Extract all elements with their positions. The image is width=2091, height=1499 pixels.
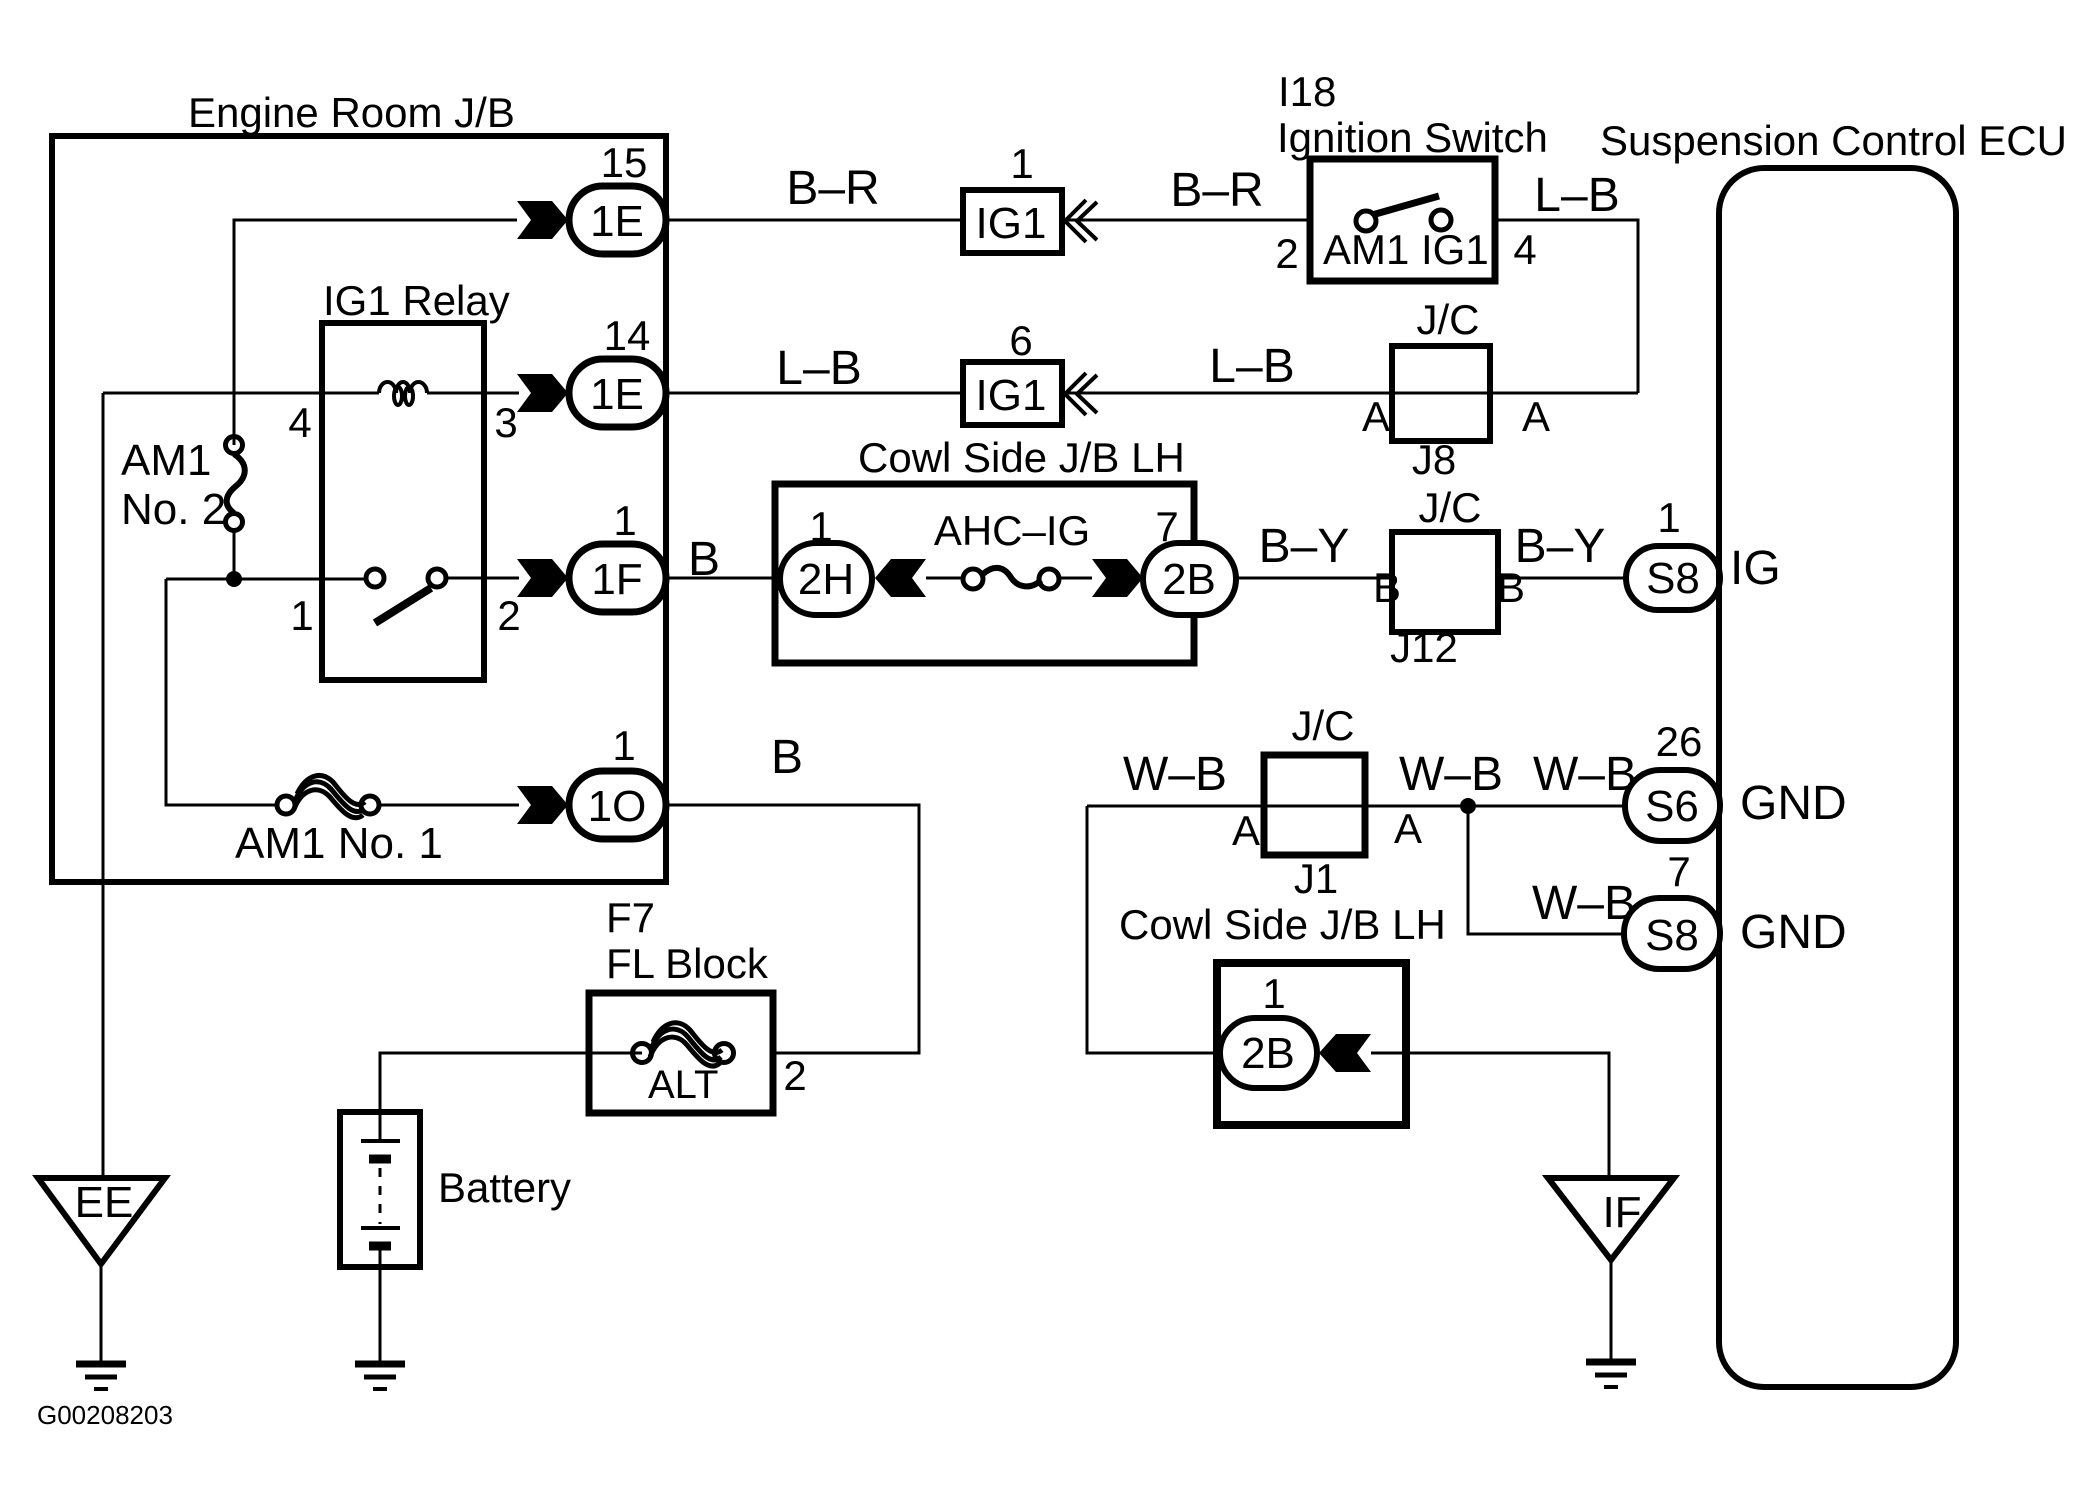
wire junction to relay contact 1 (166, 578, 366, 581)
ground symbol below IF (1586, 1362, 1636, 1387)
svg-text:IG1: IG1 (976, 199, 1047, 248)
svg-text:W–B: W–B (1533, 748, 1637, 801)
wire fuse to right arrow (1059, 577, 1092, 580)
svg-text:S6: S6 (1645, 782, 1699, 831)
svg-text:1: 1 (1262, 970, 1285, 1017)
svg-text:AM1 No. 1: AM1 No. 1 (235, 819, 443, 868)
svg-text:1E: 1E (590, 370, 644, 419)
svg-text:Battery: Battery (438, 1164, 571, 1211)
svg-text:Cowl Side J/B LH: Cowl Side J/B LH (1119, 901, 1446, 948)
svg-text:B: B (771, 731, 803, 784)
svg-text:J/C: J/C (1419, 484, 1482, 531)
junction connector J8 box (1392, 346, 1490, 441)
wire battery to ground (379, 1267, 382, 1364)
svg-text:J12: J12 (1390, 624, 1458, 671)
ground symbol below EE (76, 1364, 126, 1389)
connector arrow into 2B second (left pointing) (1319, 1034, 1371, 1072)
svg-text:J/C: J/C (1417, 296, 1480, 343)
wire junction down to S8 GND row (1468, 806, 1626, 934)
wire IG1 chevron to junction connector J8 (1067, 392, 1638, 395)
wire arrow to fuse AHC-IG (926, 577, 963, 580)
svg-text:ALT: ALT (648, 1063, 718, 1107)
fuse AHC-IG (963, 568, 1059, 589)
svg-text:3: 3 (494, 399, 517, 446)
connector oval 1F (569, 544, 666, 612)
svg-text:No. 2: No. 2 (121, 485, 226, 534)
wire 1E15 to IG1 connector 1 (666, 219, 963, 222)
svg-text:EE: EE (75, 1178, 134, 1227)
connector arrow into 1F (517, 559, 568, 597)
svg-text:GND: GND (1740, 906, 1847, 959)
svg-text:1: 1 (1657, 494, 1680, 541)
ignition switch blade (1372, 196, 1439, 215)
wire W-B row to J1 and S6 (1087, 805, 1625, 808)
svg-text:Cowl Side J/B LH: Cowl Side J/B LH (858, 434, 1185, 481)
connector oval 2H (780, 543, 872, 615)
svg-text:6: 6 (1009, 317, 1032, 364)
svg-text:FL Block: FL Block (606, 940, 769, 987)
connector oval 1E (pin 14) (569, 359, 666, 427)
svg-text:IG: IG (1730, 542, 1781, 595)
ground symbol below battery (355, 1364, 405, 1389)
relay switch blade (375, 588, 431, 623)
svg-text:B–Y: B–Y (1259, 520, 1350, 573)
connector oval S8 (GND) (1624, 898, 1720, 969)
ground triangle IF (1548, 1178, 1674, 1260)
wire coil to connector 1E pin14 (427, 392, 519, 395)
Suspension Control ECU box (1719, 168, 1956, 1387)
svg-text:L–B: L–B (776, 342, 861, 395)
svg-text:26: 26 (1656, 718, 1703, 765)
svg-text:W–B: W–B (1532, 877, 1636, 930)
svg-text:2: 2 (497, 592, 520, 639)
connector arrow into 1E pin14 (517, 374, 568, 412)
svg-text:7: 7 (1667, 848, 1690, 895)
svg-text:14: 14 (604, 312, 651, 359)
svg-text:15: 15 (601, 139, 648, 186)
connector box IG1 (pin 1) (963, 190, 1062, 253)
svg-text:W–B: W–B (1123, 748, 1227, 801)
svg-text:A: A (1362, 393, 1390, 440)
svg-text:GND: GND (1740, 777, 1847, 830)
wire battery to FL block (380, 1053, 642, 1112)
connector chevron at IG1 pin1 (1065, 200, 1097, 242)
svg-text:IG1: IG1 (976, 371, 1047, 420)
svg-text:B–R: B–R (1170, 164, 1263, 217)
wire relay contact 2 to connector 1F (446, 577, 519, 580)
wire from fuse AM1 No.2 down to junction (233, 530, 236, 579)
battery cells (361, 1112, 400, 1267)
svg-text:2B: 2B (1241, 1029, 1295, 1078)
svg-text:A: A (1232, 807, 1260, 854)
svg-text:B: B (688, 533, 720, 586)
relay switch contacts (366, 569, 384, 587)
svg-text:AM1: AM1 (121, 436, 211, 485)
FL block box F7 (589, 993, 773, 1113)
Engine Room J/B box (52, 136, 666, 882)
svg-text:1: 1 (1010, 140, 1033, 187)
svg-text:B–R: B–R (786, 162, 879, 215)
wire 2B arrow to IF riser (1371, 1053, 1609, 1178)
svg-text:J1: J1 (1294, 855, 1338, 902)
svg-text:2H: 2H (798, 555, 854, 604)
wire 1O to FL block riser (666, 805, 919, 1053)
wire EE riser (102, 393, 105, 1178)
wire IG1 chevron to ignition switch pin 2 (1067, 219, 1310, 222)
svg-text:1: 1 (290, 592, 313, 639)
svg-text:B: B (1373, 564, 1401, 611)
svg-text:AHC–IG: AHC–IG (934, 507, 1090, 554)
wire 2B to J12 (1236, 577, 1392, 580)
ignition switch contacts (1356, 211, 1376, 231)
Cowl Side J/B LH box (second) (1217, 963, 1406, 1125)
connector arrow out of 2H (left pointing) (875, 559, 926, 597)
Cowl Side J/B LH box (775, 484, 1194, 663)
fuse AM1 No.1 (277, 776, 379, 818)
junction connector J12 box (1392, 532, 1498, 632)
connector arrow into 1O (517, 786, 568, 824)
svg-text:F7: F7 (606, 894, 655, 941)
wire fuse AM1 No.1 to connector 1O (379, 804, 519, 807)
wire 1F to cowl side J/B (666, 577, 780, 580)
connector oval 1E (pin 15) (569, 186, 666, 254)
svg-text:Ignition Switch: Ignition Switch (1277, 114, 1548, 161)
wire from connector 1E pin15 left to fuse AM1 No.2 (234, 220, 517, 445)
svg-text:IF: IF (1602, 1188, 1641, 1237)
connector arrow into 1E pin15 (517, 201, 568, 239)
wire EE to ground (100, 1264, 103, 1364)
svg-text:1: 1 (612, 722, 635, 769)
svg-text:J8: J8 (1412, 436, 1456, 483)
IG1 Relay box (322, 323, 484, 680)
svg-text:4: 4 (1513, 226, 1536, 273)
wire J12 to S8 (1498, 577, 1626, 580)
connector oval 2B (second) (1220, 1018, 1317, 1088)
svg-text:1: 1 (613, 497, 636, 544)
wire W-B down to cowl side 2B (1087, 806, 1220, 1053)
junction connector J1 box (1264, 755, 1365, 855)
svg-text:A: A (1394, 805, 1422, 852)
junction node dot on W-B row (1460, 798, 1476, 814)
connector oval S8 (IG) (1626, 546, 1720, 610)
svg-text:IG1: IG1 (1421, 226, 1489, 273)
svg-text:4: 4 (288, 399, 311, 446)
battery box (340, 1112, 420, 1267)
wire ignition switch pin4 to J8 (1495, 220, 1638, 393)
wire coil row from EE riser to relay coil (103, 392, 379, 395)
svg-text:W–B: W–B (1399, 748, 1503, 801)
connector chevron at IG1 pin6 (1065, 373, 1097, 415)
svg-text:1O: 1O (588, 782, 647, 831)
svg-text:A: A (1522, 393, 1550, 440)
connector arrow into 2B (right pointing) (1092, 559, 1143, 597)
wire IF to ground (1610, 1260, 1613, 1362)
svg-text:L–B: L–B (1534, 169, 1619, 222)
svg-text:J/C: J/C (1292, 702, 1355, 749)
svg-text:1F: 1F (591, 555, 642, 604)
svg-text:S8: S8 (1646, 554, 1700, 603)
ignition switch box I18 (1310, 159, 1495, 281)
svg-text:IG1 Relay: IG1 Relay (323, 277, 510, 324)
junction node dot (226, 571, 242, 587)
connector oval 2B (1143, 543, 1236, 615)
wire junction down to AM1 No.1 row (166, 579, 277, 805)
ground triangle EE (38, 1178, 165, 1264)
svg-text:G00208203: G00208203 (37, 1400, 173, 1430)
fusible link ALT (633, 1023, 734, 1066)
svg-text:B–Y: B–Y (1515, 520, 1606, 573)
wire 1E14 to IG1 connector 6 (666, 392, 963, 395)
svg-text:1E: 1E (590, 197, 644, 246)
svg-text:L–B: L–B (1209, 340, 1294, 393)
relay coil (379, 382, 427, 405)
svg-text:S8: S8 (1645, 911, 1699, 960)
svg-text:I18: I18 (1278, 68, 1336, 115)
svg-text:Engine Room J/B: Engine Room J/B (188, 89, 515, 136)
svg-text:AM1: AM1 (1323, 226, 1409, 273)
connector box IG1 (pin 6) (963, 362, 1062, 425)
connector oval S6 (1625, 770, 1720, 841)
svg-text:2: 2 (783, 1052, 806, 1099)
svg-text:2B: 2B (1162, 555, 1216, 604)
fuse AM1 No.2 (226, 437, 245, 531)
connector oval 1O (569, 771, 666, 839)
svg-text:2: 2 (1275, 230, 1298, 277)
svg-text:Suspension Control ECU: Suspension Control ECU (1600, 117, 2067, 164)
